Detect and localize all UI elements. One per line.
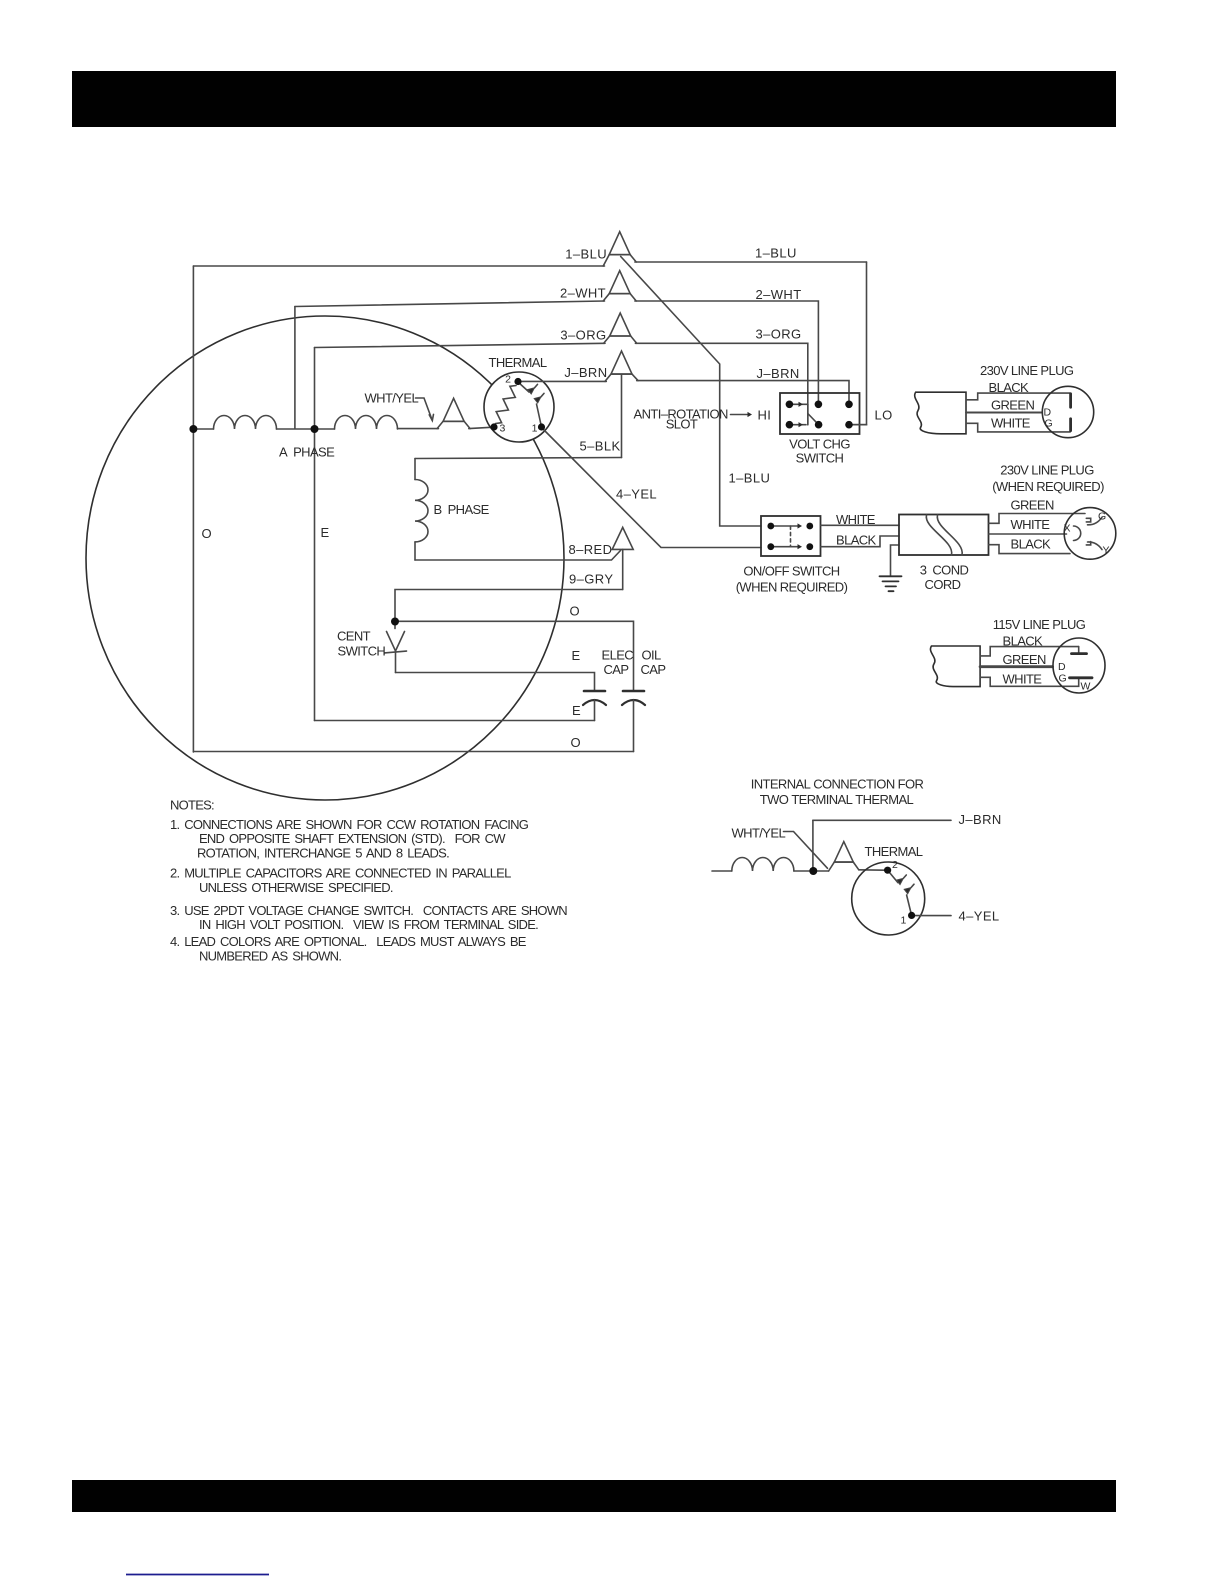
svg-text:VOLT CHG: VOLT CHG: [789, 437, 850, 452]
svg-text:E: E: [321, 525, 330, 540]
svg-text:ELEC: ELEC: [602, 648, 634, 663]
svg-text:GREEN: GREEN: [991, 398, 1034, 413]
svg-text:BLACK: BLACK: [989, 380, 1030, 395]
svg-text:SWITCH: SWITCH: [338, 644, 386, 659]
wire BLACK to 230V plug: [966, 393, 1070, 400]
junction dot node O / 1-BLU at A phase: [189, 425, 197, 433]
svg-text:1–BLU: 1–BLU: [565, 247, 607, 262]
wire between coils: [277, 428, 335, 430]
wire thermal terminal 2 to J-BRN connector: [521, 380, 607, 382]
svg-text:GREEN: GREEN: [1011, 498, 1054, 513]
wire 2-WHT right: [635, 301, 819, 401]
wire net E vertical (3-ORG tap to lower E wire): [314, 348, 316, 721]
svg-text:GREEN: GREEN: [1003, 652, 1046, 667]
svg-text:OIL: OIL: [642, 648, 662, 663]
oil cap lead to O bottom wire: [633, 700, 635, 752]
on/off switch terminal dots: [767, 523, 774, 530]
wire 8-RED (B phase bottom lead): [415, 551, 621, 561]
junction dot node E tap: [311, 425, 319, 433]
coil A phase (right half): [335, 416, 398, 430]
wire 1-BLU diagonal to on/off switch: [621, 257, 761, 527]
A phase winding wire: [193, 428, 213, 430]
internal: contact blade to terminal 1: [907, 895, 912, 915]
svg-text:SWITCH: SWITCH: [796, 451, 844, 466]
svg-text:WHT/YEL: WHT/YEL: [732, 826, 786, 841]
wire GREEN to 230V plug: [966, 412, 1042, 414]
svg-text:WHITE: WHITE: [1003, 672, 1043, 687]
wire E upper (cent switch to elec cap): [396, 673, 595, 691]
svg-text:3–ORG: 3–ORG: [756, 327, 802, 342]
svg-text:HI: HI: [758, 408, 772, 423]
svg-text:BLACK: BLACK: [836, 533, 877, 548]
wire BLACK on/off to cord: [821, 536, 899, 547]
thermal contact blade from terminal 2: [518, 382, 529, 392]
svg-text:3 COND: 3 COND: [920, 563, 969, 578]
internal thermal terminal 2 dot: [884, 867, 891, 874]
volt switch pole vertical link: [807, 404, 809, 424]
thermal terminal 2 dot: [514, 378, 521, 385]
wire connector down to 5-BLK: [621, 375, 623, 458]
internal: wire 4-YEL: [915, 915, 952, 917]
internal: contact blade from terminal 2: [888, 870, 898, 882]
svg-text:1: 1: [901, 915, 907, 927]
svg-text:B PHASE: B PHASE: [434, 502, 490, 517]
internal: wire connector to thermal terminal 2: [859, 869, 885, 871]
230V plug blade bottom: [1069, 419, 1072, 431]
wire GREEN to 115V plug: [980, 665, 1052, 668]
wire green to ground: [891, 545, 900, 576]
115V plug blade W (bar): [1070, 676, 1093, 679]
svg-text:NUMBERED AS SHOWN.: NUMBERED AS SHOWN.: [199, 949, 341, 964]
svg-text:4–YEL: 4–YEL: [959, 909, 1000, 924]
internal: vertical to junction: [812, 820, 814, 871]
svg-text:8–RED: 8–RED: [569, 542, 613, 557]
svg-text:4–YEL: 4–YEL: [616, 487, 657, 502]
thermal heater element zigzag (terminal 3 to 2): [496, 386, 517, 424]
svg-text:4. LEAD COLORS ARE OPTIONAL.: 4. LEAD COLORS ARE OPTIONAL. LEADS MUST …: [170, 934, 527, 949]
wire net O left vertical: [192, 266, 194, 752]
wire WHITE to 115V plug: [980, 677, 1079, 686]
3 conductor cord box: [899, 515, 989, 556]
twist plug prong X: [1074, 526, 1081, 541]
ground symbol: [880, 576, 902, 591]
115V plug cord grip silhouette: [930, 646, 980, 687]
svg-text:THERMAL: THERMAL: [865, 844, 923, 859]
internal: coil: [732, 857, 794, 871]
on/off link bottom with arrow: [774, 546, 798, 548]
internal: winding lead-in wire: [712, 870, 732, 872]
motor housing circle: [86, 316, 564, 800]
svg-text:WHITE: WHITE: [991, 416, 1031, 431]
115V plug blade B (T-bar): [1078, 647, 1080, 653]
svg-text:J–BRN: J–BRN: [959, 812, 1002, 827]
wire coil to WHT/YEL connector: [398, 428, 439, 430]
wire connector to thermal terminal 3: [469, 427, 491, 428]
wire 1-BLU drop to LO: [853, 262, 867, 425]
svg-text:SLOT: SLOT: [666, 417, 698, 432]
internal thermal terminal 1 dot: [908, 912, 915, 919]
footer link underline: [126, 1574, 269, 1576]
wire 3-ORG left: [315, 343, 606, 347]
wire WHITE on/off to cord: [821, 524, 899, 526]
svg-text:G: G: [1059, 673, 1067, 685]
svg-text:ROTATION, INTERCHANGE 5 AND 8: ROTATION, INTERCHANGE 5 AND 8 LEADS.: [197, 846, 449, 861]
svg-text:1–BLU: 1–BLU: [755, 246, 797, 261]
svg-text:NOTES:: NOTES:: [170, 798, 214, 813]
115V plug circle: [1053, 638, 1105, 693]
cord S-curve 2: [937, 515, 962, 555]
wire 2-WHT left + tap vertical: [294, 307, 296, 429]
svg-text:UNLESS OTHERWISE SPECIFIED.: UNLESS OTHERWISE SPECIFIED.: [199, 880, 393, 895]
thermal terminal 3 dot: [490, 423, 497, 430]
svg-text:E: E: [572, 648, 581, 663]
internal: thermal circle: [852, 862, 925, 935]
svg-text:THERMAL: THERMAL: [489, 355, 547, 370]
connector triangle 1-BLU: [603, 255, 636, 266]
svg-text:CAP: CAP: [641, 662, 666, 677]
230V plug cord grip silhouette: [915, 392, 966, 434]
wire 5-BLK (B phase top lead): [415, 458, 622, 459]
svg-text:A PHASE: A PHASE: [279, 445, 335, 460]
thermal protector body circle: [484, 372, 554, 442]
svg-text:2–WHT: 2–WHT: [560, 286, 606, 301]
internal: WHT/YEL leader: [784, 832, 828, 869]
svg-text:INTERNAL CONNECTION FOR: INTERNAL CONNECTION FOR: [751, 777, 924, 792]
junction dot cent switch node: [391, 618, 399, 626]
on/off mechanical dashed link: [790, 526, 792, 547]
centrifugal switch symbol: [394, 622, 396, 629]
svg-text:5–BLK: 5–BLK: [580, 439, 621, 454]
svg-text:(WHEN REQUIRED): (WHEN REQUIRED): [992, 479, 1104, 494]
svg-text:CENT: CENT: [337, 629, 371, 644]
svg-text:230V LINE PLUG: 230V LINE PLUG: [1000, 463, 1094, 478]
wire O from cent switch junction to oil cap: [395, 621, 634, 690]
capacitor ELEC CAP: [583, 691, 606, 705]
svg-text:O: O: [571, 735, 582, 750]
svg-text:1–BLU: 1–BLU: [729, 471, 771, 486]
svg-text:ON/OFF SWITCH: ON/OFF SWITCH: [743, 564, 839, 579]
cord S-curve 1: [926, 515, 951, 555]
wire 3-ORG right: [635, 343, 807, 424]
internal: connector triangle: [829, 862, 859, 871]
svg-text:3. USE 2PDT VOLTAGE CHANGE SWI: 3. USE 2PDT VOLTAGE CHANGE SWITCH. CONTA…: [170, 903, 567, 918]
on/off link top with arrow: [774, 525, 798, 527]
svg-text:1: 1: [532, 423, 538, 435]
connector triangle 8-RED: [612, 527, 633, 549]
svg-text:O: O: [202, 526, 213, 541]
wire E lower: [315, 720, 595, 722]
svg-text:2: 2: [892, 859, 898, 871]
volt switch link bottom-left with arrow: [792, 424, 806, 426]
wire 4-YEL diagonal from thermal terminal 1: [544, 430, 762, 548]
anti-rotation slot arrow: [731, 414, 749, 416]
wire WHITE to 230V plug: [966, 423, 1070, 432]
volt switch link top-left with arrow: [792, 403, 808, 405]
volt switch terminal dots: [786, 401, 794, 409]
svg-text:BLACK: BLACK: [1003, 634, 1044, 649]
WHT/YEL leader line: [416, 398, 433, 421]
wire O bottom: [193, 751, 633, 753]
wire 8-RED connector down to 9-GRY: [622, 549, 624, 589]
svg-text:X: X: [1064, 523, 1071, 535]
thermal terminal 1 dot: [538, 423, 545, 430]
svg-text:O: O: [570, 604, 581, 619]
svg-text:IN HIGH VOLT POSITION. VIEW I: IN HIGH VOLT POSITION. VIEW IS FROM TERM…: [199, 917, 538, 932]
svg-text:115V LINE PLUG: 115V LINE PLUG: [993, 617, 1086, 632]
wire 9-GRY: [395, 590, 623, 622]
twist plug prong Y: [1088, 542, 1103, 550]
wire 1-BLU right: [635, 261, 867, 263]
svg-text:BLACK: BLACK: [1011, 537, 1052, 552]
svg-text:2: 2: [505, 374, 511, 386]
on/off switch box: [761, 516, 821, 556]
svg-text:W: W: [1081, 681, 1091, 693]
svg-text:D: D: [1058, 661, 1066, 673]
wire J-BRN right: [637, 381, 849, 401]
header bar (redacted title block): [72, 71, 1116, 127]
svg-text:CORD: CORD: [925, 577, 961, 592]
230V plug blade top: [1069, 394, 1072, 407]
svg-text:Y: Y: [1103, 545, 1110, 557]
wire WHITE cord to twist plug: [989, 533, 1067, 535]
coil A phase (left half): [214, 416, 277, 430]
elec cap lead to E lower wire: [594, 700, 596, 721]
svg-text:2. MULTIPLE CAPACITORS ARE CON: 2. MULTIPLE CAPACITORS ARE CONNECTED IN …: [170, 866, 511, 881]
svg-text:WHT/YEL: WHT/YEL: [365, 391, 419, 406]
coil B phase: [414, 459, 416, 561]
svg-text:LO: LO: [875, 408, 893, 423]
svg-text:J–BRN: J–BRN: [564, 365, 607, 380]
svg-text:CAP: CAP: [604, 662, 629, 677]
svg-text:G: G: [1045, 418, 1053, 430]
wire GREEN cord to twist plug: [989, 514, 1085, 524]
svg-text:3–ORG: 3–ORG: [560, 328, 606, 343]
internal: wire coil to connector: [794, 870, 829, 872]
volt change switch box: [780, 393, 860, 434]
connector triangle WHT/YEL: [437, 421, 470, 428]
svg-text:9–GRY: 9–GRY: [569, 572, 613, 587]
thermal contact blade to terminal 1: [537, 404, 542, 427]
internal junction dot: [809, 867, 817, 875]
svg-text:G: G: [1098, 511, 1106, 523]
wire BLACK to 115V plug: [980, 647, 1079, 656]
230V plug circle: [1042, 386, 1093, 437]
svg-text:(WHEN REQUIRED): (WHEN REQUIRED): [736, 580, 848, 595]
svg-text:1. CONNECTIONS ARE SHOWN FOR C: 1. CONNECTIONS ARE SHOWN FOR CCW ROTATIO…: [170, 817, 529, 832]
svg-text:TWO TERMINAL THERMAL: TWO TERMINAL THERMAL: [760, 792, 914, 807]
connector triangle 3-ORG: [604, 336, 637, 343]
svg-text:2–WHT: 2–WHT: [756, 287, 802, 302]
svg-text:3: 3: [500, 423, 506, 435]
connector triangle 2-WHT: [603, 294, 636, 301]
volt switch diagonal link to bottom-middle: [808, 414, 819, 425]
connector triangle J-BRN: [605, 374, 638, 381]
wire BLACK cord to twist plug: [989, 545, 1070, 554]
wire LO terminal to 1-BLU vertical: [849, 424, 867, 426]
twist plug prong G: [1088, 517, 1103, 525]
svg-text:230V LINE PLUG: 230V LINE PLUG: [980, 363, 1074, 378]
svg-text:END OPPOSITE SHAFT EXTENSION (: END OPPOSITE SHAFT EXTENSION (STD). FOR …: [199, 831, 506, 846]
svg-text:WHITE: WHITE: [1011, 517, 1051, 532]
wire 1-BLU left: [193, 265, 604, 267]
internal: wire J-BRN: [813, 819, 951, 821]
svg-text:WHITE: WHITE: [836, 512, 876, 527]
230V twist-lock plug circle: [1064, 508, 1116, 560]
capacitor OIL CAP: [622, 691, 645, 705]
svg-text:J–BRN: J–BRN: [757, 366, 800, 381]
svg-text:E: E: [572, 703, 581, 718]
footer bar (redacted): [72, 1480, 1116, 1512]
